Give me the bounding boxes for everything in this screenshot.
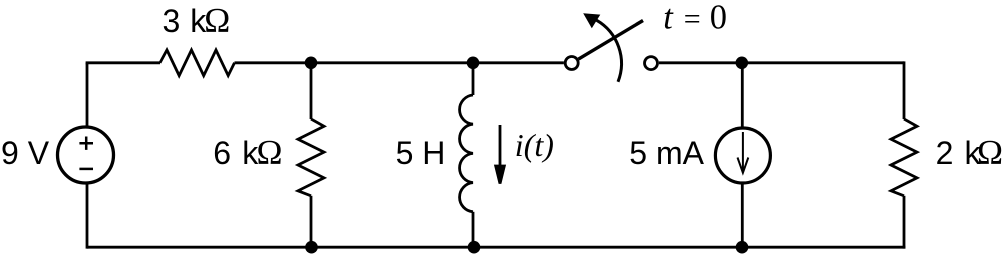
node dot top inductor: [467, 57, 480, 70]
current source I1 circle: [715, 128, 770, 183]
resistor R3 2 kOhm zigzag: [891, 119, 917, 196]
inductor L1 5 H coil of four semicircular bumps: [460, 95, 473, 212]
svg-text:t=0: t=0: [663, 0, 727, 37]
wire right side down to 2k resistor: [903, 61, 906, 119]
svg-text:3kΩ: 3kΩ: [163, 1, 231, 40]
switch opening arc: [597, 20, 622, 82]
wire left above source: [86, 63, 89, 126]
wire left below source: [86, 184, 89, 249]
wire current source top lead: [741, 63, 744, 128]
wire right side below 2k: [903, 196, 906, 249]
node dot top current source: [736, 57, 749, 70]
resistor R1 3 kOhm zigzag: [160, 50, 235, 76]
inductor current arrow i(t): [496, 125, 505, 184]
switch arc arrowhead: [583, 13, 600, 28]
svg-text:5 mA: 5 mA: [629, 135, 704, 171]
node dot bottom current source: [736, 241, 749, 254]
svg-text:5 H: 5 H: [396, 135, 446, 171]
svg-text:i(t): i(t): [515, 127, 554, 163]
wire inductor bottom lead: [472, 212, 475, 247]
wire bottom: [87, 246, 905, 249]
node dot bottom 6k: [305, 241, 318, 254]
plus sign inside source: [79, 137, 93, 150]
switch terminal circle left: [565, 57, 578, 70]
svg-text:2kΩ: 2kΩ: [936, 133, 1003, 172]
node dot bottom inductor: [468, 241, 481, 254]
node dot top 6k: [305, 57, 318, 70]
wire switch right to top right corner: [659, 61, 904, 64]
switch terminal circle right: [645, 57, 658, 70]
voltage source V1 circle: [58, 127, 114, 183]
svg-text:6kΩ: 6kΩ: [213, 133, 282, 172]
wire top middle segment to switch: [235, 61, 564, 64]
wire 6k resistor top lead: [310, 63, 313, 119]
wire 6k resistor bottom lead: [310, 196, 313, 247]
switch blade: [579, 21, 644, 60]
wire inductor top lead: [472, 63, 475, 95]
current source internal arrow: [738, 132, 749, 173]
minus sign inside source: [79, 168, 93, 171]
svg-text:9 V: 9 V: [1, 135, 50, 171]
resistor R2 6 kOhm zigzag: [298, 119, 324, 196]
wire current source bottom lead: [741, 184, 744, 248]
wire top left segment: [87, 63, 160, 65]
